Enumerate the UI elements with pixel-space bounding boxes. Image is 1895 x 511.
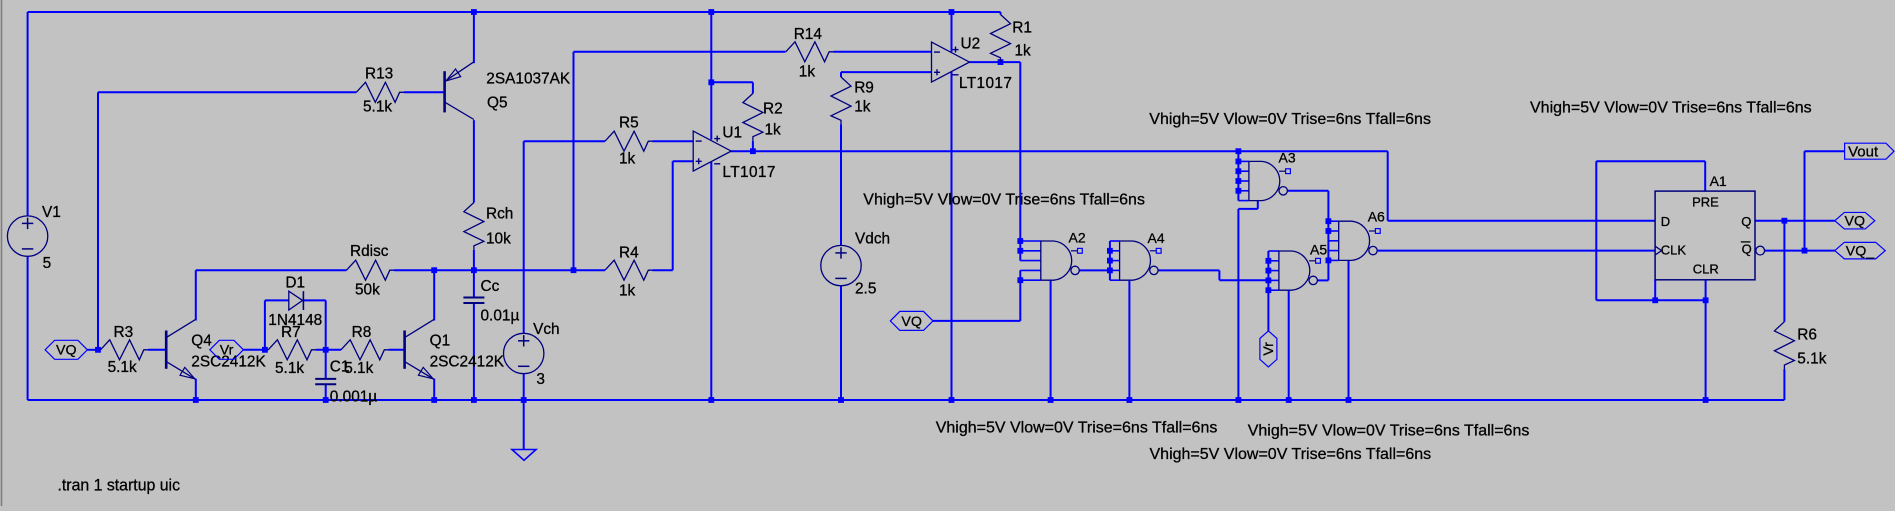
svg-text:5.1k: 5.1k bbox=[108, 359, 137, 376]
wire bbox=[574, 51, 786, 53]
svg-text:Vhigh=5V Vlow=0V Trise=6ns Tfa: Vhigh=5V Vlow=0V Trise=6ns Tfall=6ns bbox=[1149, 111, 1431, 128]
wire bbox=[473, 120, 475, 202]
wire bbox=[1050, 280, 1052, 400]
op-amp U2 bbox=[932, 35, 1012, 92]
wire bbox=[1596, 299, 1705, 301]
resistor Rch bbox=[464, 203, 513, 250]
wire bbox=[404, 91, 445, 93]
svg-text:LT1017: LT1017 bbox=[722, 164, 775, 181]
op-amp U1 bbox=[693, 125, 775, 181]
resistor R14 bbox=[786, 26, 833, 81]
resistor R7 bbox=[268, 324, 315, 377]
resistor R6 bbox=[1774, 322, 1826, 369]
junction bbox=[262, 347, 268, 353]
svg-text:Vhigh=5V Vlow=0V Trise=6ns Tfa: Vhigh=5V Vlow=0V Trise=6ns Tfall=6ns bbox=[1150, 446, 1432, 463]
wire bbox=[523, 141, 525, 333]
node Vout bbox=[1845, 143, 1894, 159]
junction bbox=[1017, 248, 1023, 254]
junction bbox=[1802, 248, 1808, 254]
junction bbox=[949, 9, 955, 15]
svg-text:Vr: Vr bbox=[220, 343, 234, 359]
junction bbox=[1346, 397, 1352, 403]
wire bbox=[195, 379, 197, 400]
wire bbox=[1783, 369, 1785, 400]
svg-text:Q4: Q4 bbox=[191, 332, 212, 349]
wire bbox=[710, 12, 712, 140]
junction bbox=[431, 267, 437, 273]
svg-text:R1: R1 bbox=[1012, 19, 1032, 36]
svg-text:R9: R9 bbox=[854, 79, 874, 96]
wire bbox=[1218, 270, 1220, 280]
wire bbox=[1079, 269, 1110, 271]
junction bbox=[431, 397, 437, 403]
wire bbox=[1238, 208, 1257, 210]
junction bbox=[571, 267, 577, 273]
transistor Q1 bbox=[405, 319, 505, 379]
node VQ bbox=[890, 311, 933, 330]
wire bbox=[1377, 250, 1655, 252]
svg-text:R8: R8 bbox=[352, 324, 372, 341]
wire bbox=[933, 320, 1020, 322]
resistor R3 bbox=[101, 324, 148, 376]
wire bbox=[1128, 280, 1130, 400]
wire bbox=[672, 161, 674, 270]
wire bbox=[524, 140, 605, 142]
source V1 bbox=[7, 204, 60, 272]
svg-text:CLR: CLR bbox=[1693, 262, 1719, 277]
wire bbox=[1804, 151, 1806, 250]
resistor R9 bbox=[831, 77, 874, 124]
wire bbox=[1019, 62, 1021, 261]
svg-text:1k: 1k bbox=[765, 122, 782, 139]
svg-text:A1: A1 bbox=[1710, 173, 1727, 189]
resistor R2 bbox=[743, 93, 783, 140]
svg-text:Vhigh=5V Vlow=0V Trise=6ns Tfa: Vhigh=5V Vlow=0V Trise=6ns Tfall=6ns bbox=[936, 420, 1218, 437]
svg-text:D1: D1 bbox=[285, 275, 305, 292]
svg-text:Vdch: Vdch bbox=[855, 231, 890, 248]
wire bbox=[1237, 209, 1239, 400]
junction bbox=[1236, 159, 1242, 165]
svg-text:VQ_: VQ_ bbox=[1846, 243, 1875, 259]
resistor R4 bbox=[605, 245, 652, 300]
wire bbox=[840, 124, 842, 245]
junction bbox=[949, 397, 955, 403]
junction bbox=[323, 347, 329, 353]
svg-text:5.1k: 5.1k bbox=[363, 99, 392, 116]
wire bbox=[28, 399, 1785, 401]
wire bbox=[523, 374, 525, 450]
svg-text:V1: V1 bbox=[42, 204, 61, 221]
wire bbox=[1783, 221, 1785, 322]
wire bbox=[673, 160, 694, 162]
resistor R1 bbox=[991, 15, 1032, 62]
junction bbox=[521, 397, 527, 403]
svg-text:D: D bbox=[1661, 214, 1670, 229]
wire bbox=[1595, 161, 1597, 300]
wire bbox=[473, 250, 475, 297]
svg-text:5.1k: 5.1k bbox=[275, 360, 304, 377]
junction bbox=[1127, 397, 1133, 403]
junction bbox=[1048, 397, 1054, 403]
junction bbox=[1266, 268, 1272, 274]
wire bbox=[1388, 220, 1655, 222]
junction bbox=[750, 148, 756, 154]
NAND gate A3 bbox=[1238, 150, 1295, 201]
junction bbox=[1236, 148, 1242, 154]
junction bbox=[1652, 297, 1658, 303]
wire bbox=[833, 51, 931, 53]
wire bbox=[1705, 280, 1707, 400]
svg-text:Rdisc: Rdisc bbox=[350, 243, 389, 260]
resistor R13 bbox=[356, 66, 403, 116]
junction bbox=[471, 267, 477, 273]
wire bbox=[1000, 61, 1002, 64]
node VQ bbox=[45, 340, 87, 359]
wire bbox=[1596, 160, 1705, 162]
NAND gate A5 bbox=[1268, 242, 1327, 291]
wire bbox=[752, 82, 754, 93]
wire bbox=[711, 81, 753, 83]
wire bbox=[1000, 12, 1002, 15]
junction bbox=[471, 397, 477, 403]
node Vr bbox=[210, 340, 244, 359]
svg-text:5: 5 bbox=[43, 255, 52, 272]
wire bbox=[1765, 250, 1835, 252]
wire bbox=[27, 12, 29, 216]
svg-text:5.1k: 5.1k bbox=[1797, 350, 1826, 367]
junction bbox=[95, 347, 101, 353]
node VQ_ bbox=[1835, 242, 1885, 259]
NAND gate A6 bbox=[1328, 209, 1385, 261]
wire bbox=[1704, 161, 1706, 191]
svg-text:VQ: VQ bbox=[56, 343, 77, 359]
junction bbox=[1236, 188, 1242, 194]
svg-text:Vhigh=5V Vlow=0V Trise=6ns Tfa: Vhigh=5V Vlow=0V Trise=6ns Tfall=6ns bbox=[863, 192, 1145, 209]
wire bbox=[325, 300, 327, 349]
junction bbox=[1017, 277, 1023, 283]
wire bbox=[840, 72, 842, 77]
wire bbox=[1755, 220, 1835, 222]
svg-text:R3: R3 bbox=[114, 324, 134, 341]
wire bbox=[325, 385, 327, 400]
svg-text:Vout: Vout bbox=[1848, 143, 1879, 160]
svg-text:R14: R14 bbox=[794, 26, 823, 43]
svg-text:R13: R13 bbox=[365, 66, 393, 83]
diode D1 bbox=[268, 275, 322, 330]
wire bbox=[195, 270, 197, 320]
junction bbox=[1266, 278, 1272, 284]
svg-text:1k: 1k bbox=[799, 64, 816, 81]
wire bbox=[1257, 201, 1259, 209]
wire bbox=[394, 269, 605, 271]
junction bbox=[1782, 218, 1788, 224]
transistor Q5 bbox=[445, 62, 571, 120]
wire bbox=[473, 12, 475, 63]
wire bbox=[97, 92, 99, 350]
svg-text:PRE: PRE bbox=[1692, 194, 1719, 209]
junction bbox=[1326, 228, 1332, 234]
wire bbox=[951, 72, 953, 400]
junction bbox=[1017, 238, 1023, 244]
wire bbox=[970, 61, 1021, 63]
wire bbox=[473, 304, 475, 400]
wire bbox=[98, 91, 356, 93]
node VQ bbox=[1835, 212, 1875, 229]
wire bbox=[1219, 279, 1268, 281]
svg-text:0.001µ: 0.001µ bbox=[330, 389, 378, 406]
svg-text:1k: 1k bbox=[1015, 42, 1032, 59]
wire bbox=[1267, 251, 1269, 331]
junction bbox=[838, 397, 844, 403]
svg-text:Rch: Rch bbox=[486, 206, 513, 223]
junction bbox=[998, 59, 1004, 65]
svg-text:R5: R5 bbox=[619, 114, 639, 131]
wire bbox=[1158, 269, 1219, 271]
svg-text:Vhigh=5V Vlow=0V Trise=6ns Tfa: Vhigh=5V Vlow=0V Trise=6ns Tfall=6ns bbox=[1248, 423, 1530, 440]
junction bbox=[1107, 258, 1113, 264]
svg-text:.tran 1 startup uic: .tran 1 startup uic bbox=[58, 475, 181, 494]
svg-text:10k: 10k bbox=[486, 231, 511, 248]
svg-text:R4: R4 bbox=[619, 245, 639, 262]
wire bbox=[1348, 260, 1350, 400]
junction bbox=[1703, 297, 1709, 303]
wire bbox=[148, 349, 166, 351]
wire bbox=[573, 52, 575, 270]
svg-text:VQ: VQ bbox=[1845, 214, 1866, 230]
wire bbox=[1805, 150, 1845, 152]
wire bbox=[1327, 191, 1329, 281]
wire bbox=[1019, 270, 1021, 321]
capacitor Cc bbox=[463, 278, 519, 324]
source Vdch bbox=[821, 231, 890, 298]
wire bbox=[731, 150, 1388, 152]
svg-text:C1: C1 bbox=[330, 359, 350, 376]
wire bbox=[1109, 241, 1111, 280]
wire bbox=[303, 299, 325, 301]
junction bbox=[1326, 258, 1332, 264]
wire bbox=[1654, 280, 1656, 301]
svg-text:R6: R6 bbox=[1797, 327, 1817, 344]
wire bbox=[1288, 290, 1290, 400]
svg-text:LT1017: LT1017 bbox=[959, 75, 1012, 92]
svg-text:Vch: Vch bbox=[533, 321, 560, 338]
svg-text:2SC2412K: 2SC2412K bbox=[430, 354, 505, 371]
junction bbox=[708, 79, 714, 85]
svg-text:1k: 1k bbox=[854, 98, 871, 115]
svg-text:2SA1037AK: 2SA1037AK bbox=[486, 70, 571, 87]
wire bbox=[28, 11, 1001, 13]
resistor Rdisc bbox=[347, 243, 394, 299]
wire bbox=[752, 141, 754, 151]
junction bbox=[1326, 218, 1332, 224]
node Vr bbox=[1260, 331, 1277, 367]
junction bbox=[1236, 178, 1242, 184]
wire bbox=[1387, 151, 1389, 221]
wire bbox=[433, 379, 435, 400]
svg-text:U1: U1 bbox=[722, 125, 742, 142]
junction bbox=[708, 9, 714, 15]
svg-text:A2: A2 bbox=[1069, 229, 1086, 245]
wire bbox=[27, 256, 29, 400]
junction bbox=[1703, 397, 1709, 403]
wire bbox=[710, 162, 712, 400]
wire bbox=[243, 349, 268, 351]
svg-text:Cc: Cc bbox=[481, 278, 500, 295]
svg-text:Q5: Q5 bbox=[487, 95, 508, 112]
junction bbox=[471, 9, 477, 15]
capacitor C1 bbox=[315, 359, 377, 406]
wire bbox=[840, 286, 842, 400]
junction bbox=[708, 397, 714, 403]
svg-text:50k: 50k bbox=[355, 282, 380, 299]
svg-text:Q: Q bbox=[1741, 214, 1751, 229]
wire bbox=[264, 300, 266, 349]
junction bbox=[1266, 258, 1272, 264]
junction bbox=[1107, 268, 1113, 274]
svg-text:CLK: CLK bbox=[1661, 243, 1687, 258]
junction bbox=[323, 397, 329, 403]
resistor R8 bbox=[341, 324, 388, 377]
svg-text:VQ: VQ bbox=[901, 314, 922, 330]
wire bbox=[951, 12, 953, 52]
svg-text:A4: A4 bbox=[1148, 230, 1165, 246]
svg-text:1N4148: 1N4148 bbox=[268, 312, 322, 329]
svg-text:A3: A3 bbox=[1279, 150, 1296, 166]
transistor Q4 bbox=[166, 319, 266, 379]
svg-text:Vhigh=5V Vlow=0V Trise=6ns Tfa: Vhigh=5V Vlow=0V Trise=6ns Tfall=6ns bbox=[1530, 100, 1812, 117]
svg-text:R2: R2 bbox=[763, 101, 783, 118]
junction bbox=[1107, 248, 1113, 254]
svg-text:1k: 1k bbox=[619, 151, 636, 168]
wire bbox=[196, 269, 347, 271]
junction bbox=[193, 397, 199, 403]
wire bbox=[841, 71, 932, 73]
junction bbox=[1266, 287, 1272, 293]
ground bbox=[512, 450, 536, 461]
svg-text:A5: A5 bbox=[1310, 242, 1327, 258]
svg-text:2.5: 2.5 bbox=[855, 281, 876, 298]
source Vch bbox=[504, 321, 560, 388]
svg-text:0.01µ: 0.01µ bbox=[481, 307, 520, 324]
NAND gate A4 bbox=[1110, 230, 1165, 280]
wire bbox=[325, 350, 327, 378]
svg-text:1k: 1k bbox=[619, 283, 636, 300]
wire bbox=[1237, 151, 1239, 200]
junction bbox=[1236, 168, 1242, 174]
junction bbox=[1236, 397, 1242, 403]
wire bbox=[316, 349, 341, 351]
svg-text:U2: U2 bbox=[961, 35, 981, 52]
svg-text:Vr: Vr bbox=[1260, 342, 1276, 356]
wire bbox=[265, 299, 289, 301]
wire bbox=[1287, 190, 1328, 192]
svg-text:Q1: Q1 bbox=[430, 332, 451, 349]
svg-text:3: 3 bbox=[536, 371, 545, 388]
D flip-flop A1 bbox=[1655, 173, 1765, 280]
wire bbox=[652, 269, 672, 271]
resistor R5 bbox=[605, 114, 652, 167]
window border bbox=[1, 0, 3, 506]
junction bbox=[1286, 397, 1292, 403]
svg-text:Q: Q bbox=[1742, 242, 1752, 257]
NAND gate A2 bbox=[1020, 229, 1086, 280]
wire bbox=[1317, 279, 1328, 281]
svg-text:A6: A6 bbox=[1368, 209, 1385, 225]
wire bbox=[652, 140, 693, 142]
wire bbox=[433, 270, 435, 320]
wire bbox=[87, 349, 100, 351]
wire bbox=[388, 349, 404, 351]
